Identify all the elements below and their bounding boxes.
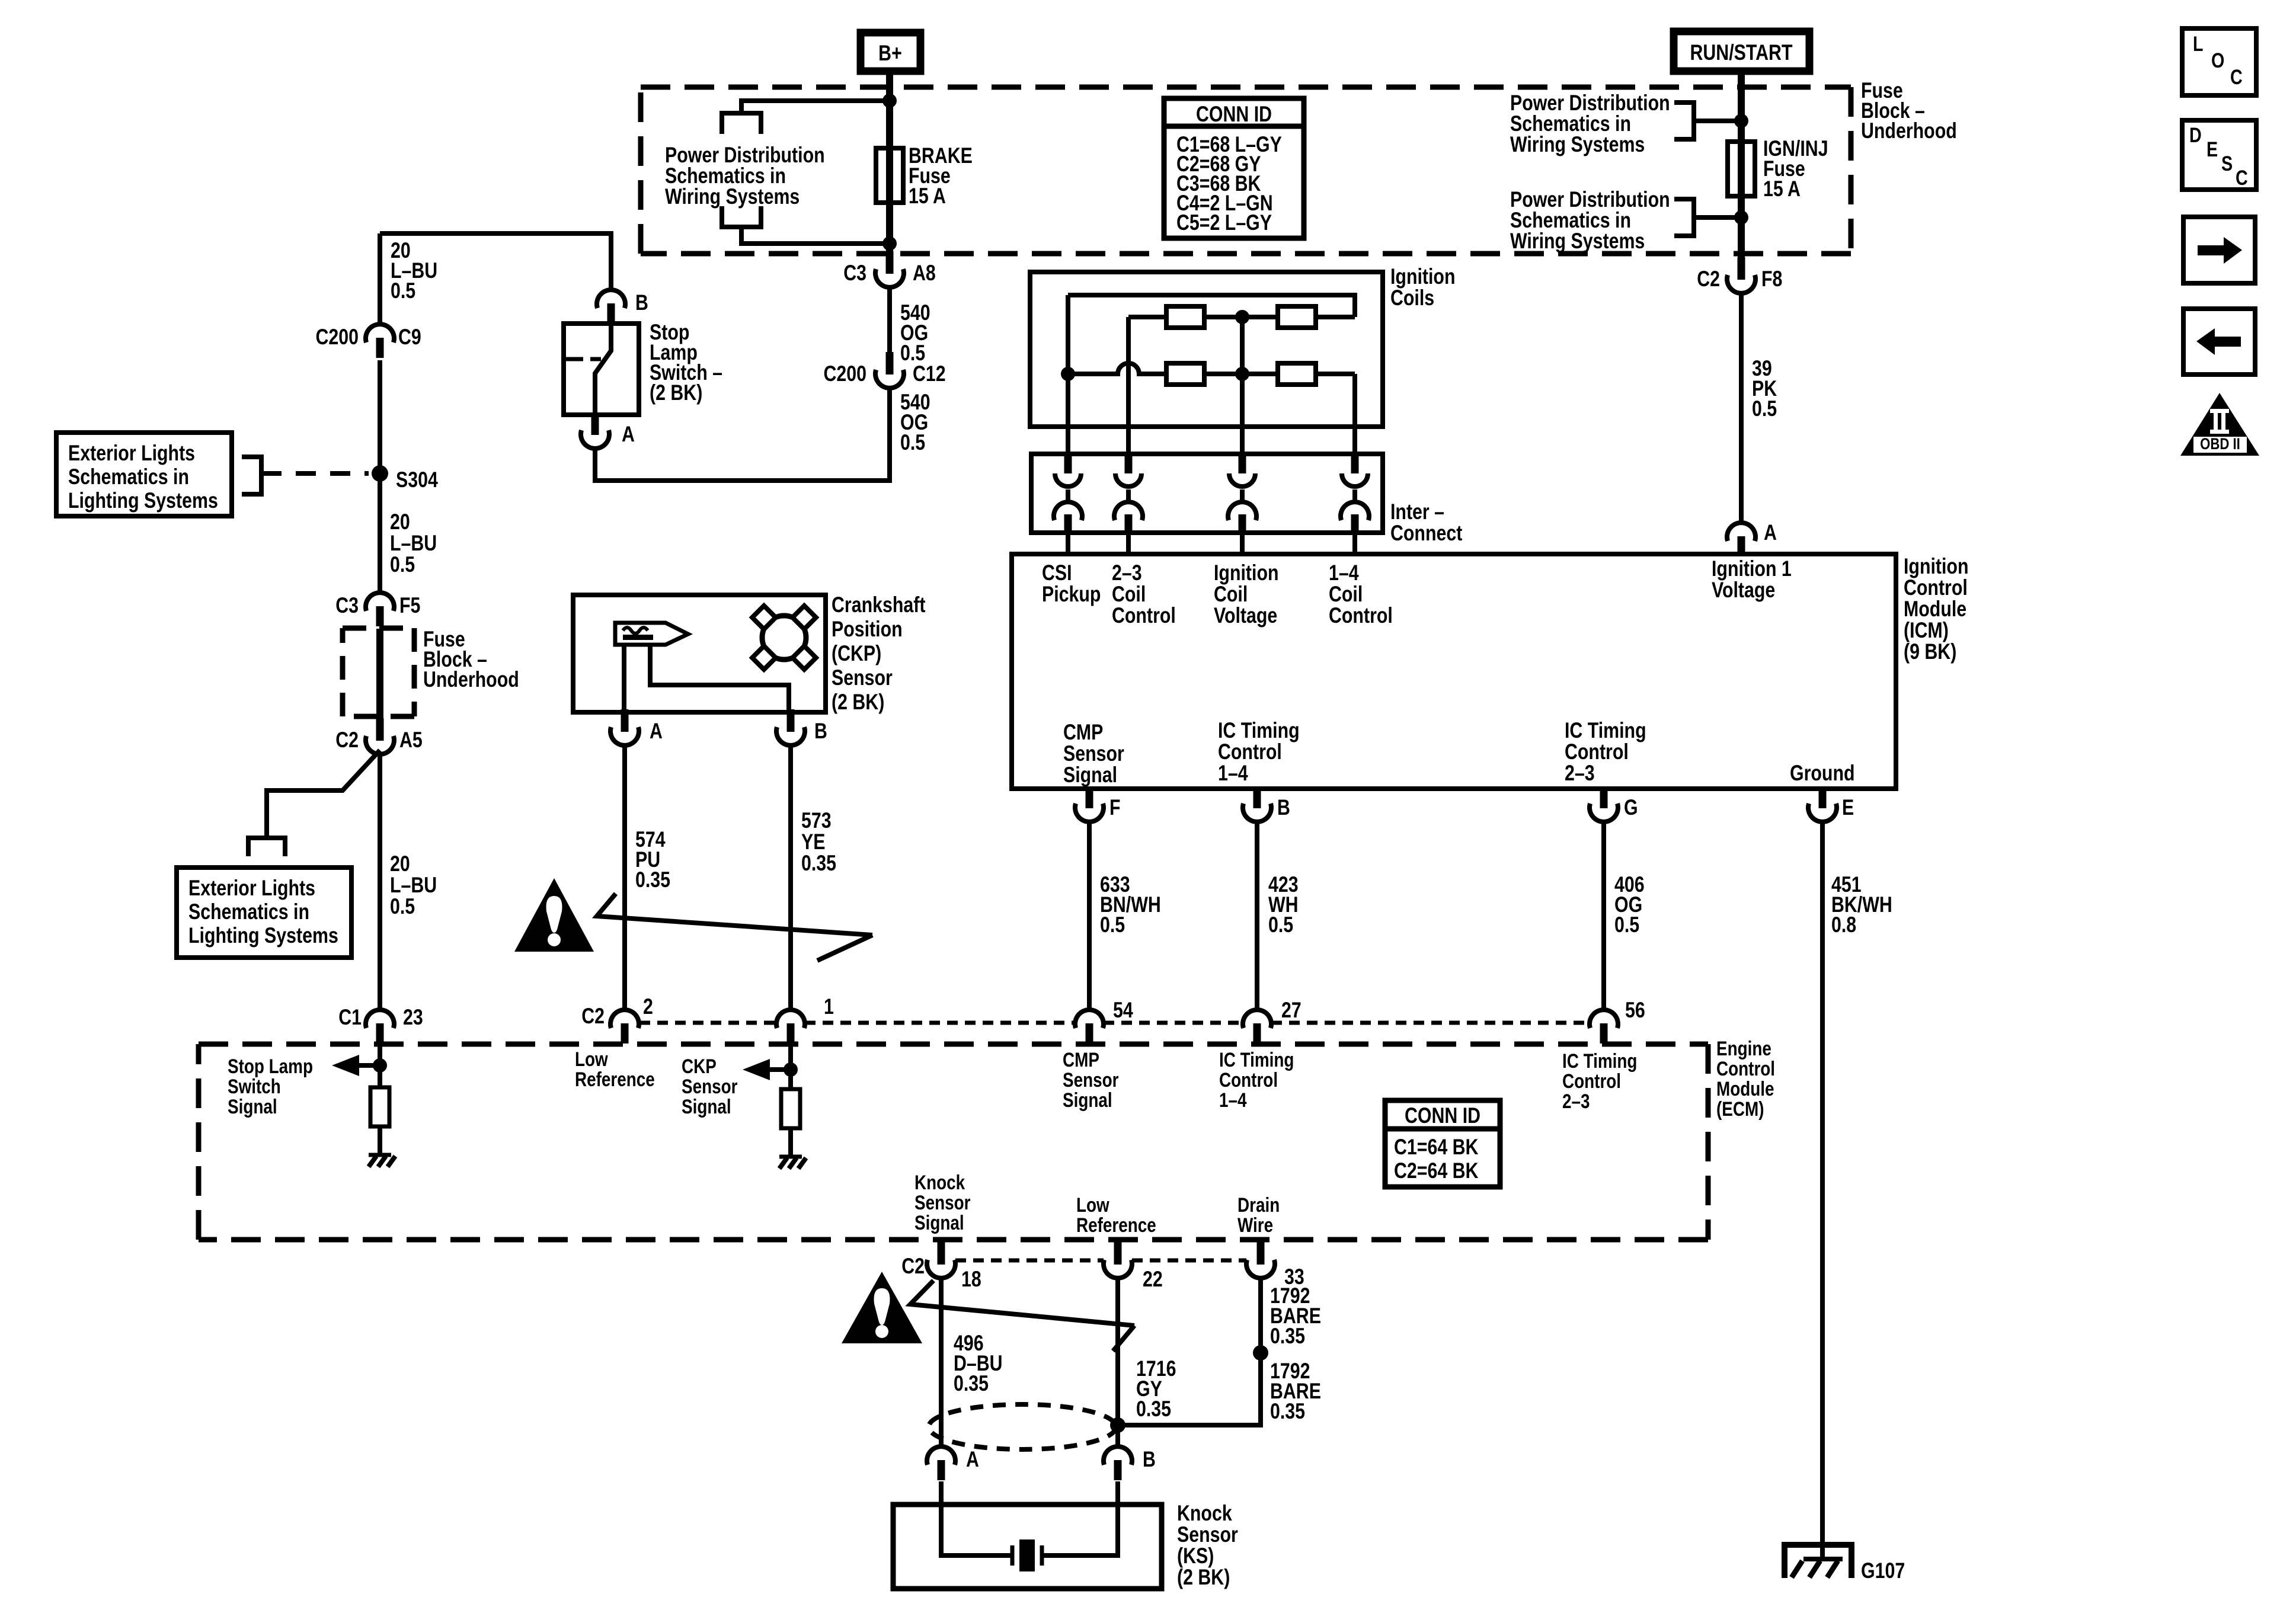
svg-text:A: A [650, 719, 663, 744]
legend OBD II triangle [2180, 393, 2259, 456]
svg-text:S: S [2221, 152, 2233, 175]
svg-text:Wiring Systems: Wiring Systems [1510, 132, 1645, 157]
svg-text:0.5: 0.5 [390, 894, 415, 919]
coil vertical CSI [1066, 295, 1070, 427]
svg-text:C3: C3 [843, 261, 866, 286]
connector B knock sensor [1104, 1446, 1132, 1465]
connector C3/F5 [366, 593, 394, 611]
resistor stop lamp pulldown [370, 1087, 389, 1126]
wire 540 OG lower to stop lamp switch [595, 389, 890, 481]
warning triangle (CKP) [514, 878, 594, 952]
resistor CKP pulldown [781, 1089, 800, 1128]
svg-text:CONN ID: CONN ID [1196, 102, 1272, 127]
svg-text:0.35: 0.35 [1136, 1397, 1171, 1422]
svg-text:C5=2 L–GY: C5=2 L–GY [1176, 210, 1272, 235]
connector C2/F8 [1738, 257, 1745, 280]
harness damage bolt (CKP) [597, 894, 872, 961]
CONN ID table (fuse block) [1164, 98, 1304, 238]
wire stop lamp signal pulldown [378, 1046, 382, 1155]
wire 540 OG upper [887, 288, 892, 354]
wire 39 PK from RUN/START [1738, 71, 1745, 261]
svg-text:Coils: Coils [1390, 286, 1434, 311]
ECM dashed box [199, 1044, 1708, 1240]
bracket power distribution right upper [1674, 103, 1694, 139]
svg-text:Reference: Reference [575, 1068, 655, 1090]
coil junction dots [1061, 367, 1075, 381]
ground stop lamp pulldown [369, 1153, 391, 1157]
target wheel icon [762, 616, 806, 660]
off-page bracket power distribution top [722, 113, 761, 134]
connector B stop lamp switch [597, 290, 625, 308]
knock sensor box [893, 1505, 1162, 1589]
svg-text:Control: Control [1219, 1068, 1278, 1091]
svg-text:Control: Control [1716, 1057, 1775, 1080]
svg-text:2: 2 [643, 994, 653, 1019]
connector C200/C9 [366, 324, 394, 343]
svg-text:Low: Low [1076, 1193, 1109, 1216]
svg-text:S304: S304 [396, 468, 438, 492]
coil bottom row wire [1068, 363, 1355, 374]
svg-text:D: D [2189, 123, 2202, 146]
svg-text:C2=64 BK: C2=64 BK [1394, 1158, 1479, 1183]
svg-text:0.5: 0.5 [1614, 913, 1639, 937]
svg-text:C2: C2 [581, 1004, 605, 1029]
wire through left fuse block [376, 629, 383, 718]
ICM pin G [1600, 789, 1608, 808]
arrow CKP sensor signal [764, 1067, 791, 1072]
svg-text:C200: C200 [823, 361, 866, 386]
ECM connector face dotted line (knock row) [955, 1259, 1104, 1263]
ignition coils box [1030, 272, 1383, 427]
wire 1716 GY [1115, 1279, 1120, 1446]
svg-text:2–3: 2–3 [1565, 761, 1595, 786]
wire 39 PK to ICM [1739, 294, 1744, 523]
svg-text:0.5: 0.5 [1268, 913, 1293, 937]
svg-text:18: 18 [961, 1267, 981, 1292]
CONN ID table (ECM) [1385, 1100, 1500, 1187]
svg-text:Control: Control [1112, 603, 1176, 628]
svg-text:B: B [1277, 795, 1290, 820]
svg-text:Ground: Ground [1790, 761, 1855, 786]
junction dot stop lamp signal [373, 1058, 387, 1073]
dashed link bracket to S304 [261, 471, 369, 476]
svg-text:C1=64 BK: C1=64 BK [1394, 1135, 1479, 1160]
wire knock sensor internal A [941, 1481, 1011, 1555]
svg-text:56: 56 [1625, 998, 1645, 1023]
svg-text:1–4: 1–4 [1218, 761, 1248, 786]
connector 27 [1243, 1010, 1271, 1028]
wire hall to pin A [622, 645, 626, 712]
svg-text:C2: C2 [901, 1254, 925, 1279]
inter-connect box [1031, 454, 1383, 533]
wire switch feed top [380, 233, 611, 290]
svg-text:1–4: 1–4 [1219, 1089, 1247, 1111]
svg-text:(CKP): (CKP) [832, 641, 881, 666]
wire CKP signal pulldown [788, 1046, 793, 1157]
coil winding rect 4 [1278, 363, 1316, 385]
wire to power distribution bracket (top) [741, 101, 890, 113]
svg-text:0.35: 0.35 [801, 851, 836, 876]
svg-text:Exterior Lights: Exterior Lights [68, 441, 195, 466]
bracket power distribution right lower [1674, 199, 1694, 236]
svg-text:Schematics in: Schematics in [188, 900, 309, 924]
connector A CKP [621, 709, 629, 732]
svg-text:E: E [1842, 795, 1854, 820]
svg-text:Signal: Signal [682, 1095, 731, 1118]
connector A ICM ignition 1 voltage [1727, 523, 1755, 541]
svg-text:54: 54 [1113, 998, 1133, 1023]
svg-text:IC Timing: IC Timing [1562, 1049, 1637, 1072]
svg-text:Sensor: Sensor [832, 665, 893, 690]
svg-text:Signal: Signal [1063, 763, 1117, 788]
off-page bracket power distribution bottom [722, 206, 761, 227]
switch blade [595, 326, 611, 415]
svg-text:Control: Control [1562, 1070, 1621, 1092]
RUN/START power feed box [1674, 31, 1809, 71]
svg-text:Signal: Signal [1063, 1089, 1112, 1111]
svg-text:0.35: 0.35 [1270, 1399, 1305, 1424]
svg-text:2–3: 2–3 [1562, 1090, 1590, 1112]
ground G107 [1785, 1545, 1851, 1578]
wire 496 D-BU [939, 1279, 944, 1446]
svg-text:Crankshaft: Crankshaft [832, 593, 925, 617]
svg-text:C200: C200 [315, 325, 359, 350]
svg-text:Signal: Signal [228, 1095, 277, 1118]
coil winding rect 3 [1166, 363, 1204, 385]
interconnect pin pair 2 [1125, 454, 1133, 473]
svg-text:Wire: Wire [1237, 1214, 1273, 1236]
warning triangle (knock) [842, 1272, 922, 1343]
svg-text:Pickup: Pickup [1042, 582, 1101, 607]
junction dot RUN/START lower [1734, 210, 1748, 225]
connector C2/18 [938, 1242, 945, 1265]
connector B CKP [787, 709, 795, 732]
svg-text:Wiring Systems: Wiring Systems [1510, 229, 1645, 254]
svg-text:0.35: 0.35 [1270, 1324, 1305, 1349]
switch contact ticks [564, 357, 583, 361]
legend right arrow box [2183, 217, 2255, 283]
svg-text:Exterior Lights: Exterior Lights [188, 876, 315, 901]
wire from power distribution bracket (bottom) [741, 227, 890, 244]
svg-text:Sensor: Sensor [682, 1075, 737, 1097]
coil top row wire [1128, 315, 1355, 319]
splice drain wire [1253, 1345, 1268, 1361]
connector 33 [1257, 1242, 1265, 1265]
svg-text:G107: G107 [1861, 1558, 1905, 1583]
svg-text:0.5: 0.5 [391, 279, 415, 303]
svg-text:E: E [2207, 137, 2218, 161]
junction dot RUN/START upper [1734, 114, 1748, 128]
svg-text:(2 BK): (2 BK) [650, 380, 702, 405]
piezo element [1011, 1545, 1015, 1566]
connector C200/C12 [886, 352, 894, 375]
svg-text:Schematics in: Schematics in [68, 465, 189, 489]
svg-text:C12: C12 [913, 361, 946, 386]
svg-text:Reference: Reference [1076, 1214, 1156, 1236]
ICM pin F [1086, 789, 1093, 808]
svg-text:C3: C3 [335, 593, 359, 618]
svg-text:0.5: 0.5 [1100, 913, 1125, 937]
svg-text:F8: F8 [1761, 267, 1782, 292]
ECM connector face dotted line (top row) [639, 1021, 776, 1025]
ICM box [1012, 554, 1896, 789]
svg-text:15 A: 15 A [909, 184, 946, 209]
svg-text:Connect: Connect [1390, 521, 1462, 546]
svg-text:(9 BK): (9 BK) [1904, 639, 1956, 664]
fuse IGN/INJ 15A [1728, 142, 1755, 196]
svg-text:0.5: 0.5 [900, 430, 925, 455]
svg-text:OBD II: OBD II [2200, 436, 2240, 453]
svg-text:22: 22 [1143, 1267, 1163, 1292]
wire 633 BN/WH [1087, 822, 1092, 1009]
fuse BRAKE 15A [876, 148, 903, 203]
svg-text:B: B [1143, 1447, 1156, 1472]
connector 54 [1075, 1010, 1104, 1028]
exterior lights reference box (upper) [56, 433, 232, 516]
svg-text:Stop Lamp: Stop Lamp [228, 1055, 313, 1077]
wire 451 BK/WH to G107 [1820, 822, 1825, 1559]
svg-text:Engine: Engine [1716, 1037, 1771, 1060]
svg-text:F: F [1109, 795, 1121, 820]
svg-text:B: B [635, 290, 648, 315]
coil inner top loop [1068, 295, 1355, 317]
interconnect pin pair 4 [1351, 454, 1359, 473]
svg-text:23: 23 [403, 1005, 423, 1030]
svg-text:A: A [966, 1447, 979, 1472]
svg-text:(2 BK): (2 BK) [1177, 1565, 1230, 1590]
svg-text:(2 BK): (2 BK) [832, 690, 884, 715]
interconnect pin pair 3 [1239, 454, 1246, 473]
hall element icon [615, 623, 688, 645]
legend left arrow box [2183, 309, 2255, 375]
wire hall to pin B [650, 645, 789, 712]
svg-text:C: C [2236, 166, 2248, 189]
connector A stop lamp switch [591, 412, 599, 435]
wire 20 L-BU second segment [378, 360, 382, 592]
harness damage bolt (knock) [910, 1281, 1134, 1351]
svg-text:Voltage: Voltage [1712, 578, 1775, 603]
arrow stop lamp switch signal [353, 1063, 380, 1068]
legend DESC box [2182, 120, 2256, 190]
wire 1792 BARE drain [1118, 1279, 1261, 1425]
coil vertical 1-4 [1352, 374, 1357, 427]
svg-text:Module: Module [1716, 1077, 1774, 1100]
ICM pin E [1819, 789, 1827, 808]
svg-text:B+: B+ [878, 41, 902, 66]
connector C2/2 [610, 1010, 639, 1028]
svg-text:Lighting Systems: Lighting Systems [188, 923, 338, 948]
svg-text:0.8: 0.8 [1831, 913, 1856, 937]
svg-text:Switch: Switch [228, 1075, 281, 1097]
connector 1 [776, 1010, 805, 1028]
wire 423 WH [1255, 822, 1259, 1009]
bracket to S304 [242, 457, 261, 494]
wire 406 OG [1601, 822, 1606, 1009]
connector 56 [1590, 1010, 1618, 1028]
svg-text:27: 27 [1281, 998, 1302, 1023]
svg-text:F5: F5 [399, 593, 420, 618]
svg-text:Underhood: Underhood [423, 667, 519, 692]
svg-text:Underhood: Underhood [1861, 119, 1957, 143]
svg-text:0.35: 0.35 [954, 1371, 989, 1396]
connector C2/A5 [376, 718, 384, 741]
svg-text:1: 1 [824, 994, 834, 1019]
svg-text:CONN ID: CONN ID [1405, 1103, 1480, 1128]
ground CKP pulldown [779, 1155, 802, 1159]
connector C3/A8 [886, 251, 894, 274]
wire knock sensor internal B [1043, 1481, 1118, 1555]
svg-text:C: C [2230, 65, 2243, 88]
junction dot B+ bottom [882, 236, 897, 251]
svg-text:CKP: CKP [682, 1055, 717, 1077]
svg-text:G: G [1624, 795, 1638, 820]
connector 22 [1114, 1242, 1122, 1265]
svg-text:(ECM): (ECM) [1716, 1097, 1764, 1120]
svg-text:Sensor: Sensor [914, 1191, 970, 1214]
junction dot B+ top [882, 94, 897, 108]
svg-text:CMP: CMP [1063, 1048, 1099, 1071]
coil vertical 2-3 [1126, 317, 1131, 427]
wire B+ feed vertical [886, 71, 893, 261]
coil winding rect 2 [1278, 306, 1316, 328]
shield dashed ellipse [929, 1404, 1116, 1449]
svg-text:L: L [2193, 32, 2204, 55]
svg-text:C9: C9 [398, 325, 421, 350]
wire 574 PU [622, 746, 627, 1009]
coil vertical voltage [1240, 317, 1245, 427]
interconnect pin pair 1 [1064, 454, 1072, 473]
svg-text:C2: C2 [1697, 267, 1720, 292]
svg-text:0.5: 0.5 [390, 552, 415, 577]
wire 573 YE [788, 746, 793, 1009]
connector A knock sensor [927, 1446, 955, 1465]
svg-text:0.35: 0.35 [635, 868, 670, 892]
svg-text:Position: Position [832, 617, 903, 642]
bracket to exterior lights (lower) [248, 838, 285, 856]
legend LOC box [2182, 28, 2256, 95]
connector C1/23 [366, 1010, 394, 1028]
diagonal branch from A5 [267, 750, 380, 838]
splice S304 [372, 465, 388, 482]
svg-text:RUN/START: RUN/START [1690, 40, 1792, 65]
junction dot drain to low reference [1110, 1417, 1125, 1433]
svg-text:Voltage: Voltage [1214, 603, 1277, 628]
CKP sensor box [573, 595, 826, 712]
fuse block underhood dashed box (top) [641, 87, 1851, 254]
svg-text:Sensor: Sensor [1063, 1068, 1118, 1091]
junction dot CKP signal [784, 1062, 798, 1077]
B+ power feed box [861, 33, 920, 71]
coil winding rect 1 [1166, 306, 1204, 328]
ICM pin B [1253, 789, 1261, 808]
svg-text:O: O [2211, 49, 2224, 72]
svg-text:A: A [1764, 520, 1777, 545]
svg-text:Control: Control [1329, 603, 1393, 628]
wire 20 L-BU top segment [378, 233, 382, 325]
svg-text:A: A [622, 422, 635, 447]
wires coils to interconnect [1066, 427, 1070, 454]
fuse block underhood dashed box (left small) [343, 628, 414, 716]
svg-text:Low: Low [575, 1048, 608, 1070]
svg-text:C1: C1 [338, 1005, 362, 1030]
stop lamp switch box [564, 324, 639, 415]
svg-text:0.5: 0.5 [1752, 396, 1777, 421]
svg-text:A8: A8 [913, 261, 936, 286]
svg-text:Drain: Drain [1237, 1193, 1280, 1216]
svg-text:Wiring Systems: Wiring Systems [665, 184, 800, 209]
svg-text:A5: A5 [399, 728, 423, 753]
svg-text:IC Timing: IC Timing [1219, 1048, 1294, 1071]
wire 20 L-BU lower segment [378, 755, 382, 1009]
svg-text:15 A: 15 A [1763, 177, 1801, 201]
svg-text:Signal: Signal [914, 1211, 964, 1234]
svg-text:B: B [814, 719, 827, 744]
svg-text:Knock: Knock [914, 1171, 965, 1193]
exterior lights reference box (lower) [177, 868, 351, 958]
svg-text:Lighting Systems: Lighting Systems [68, 488, 218, 513]
svg-text:C2: C2 [335, 728, 359, 753]
